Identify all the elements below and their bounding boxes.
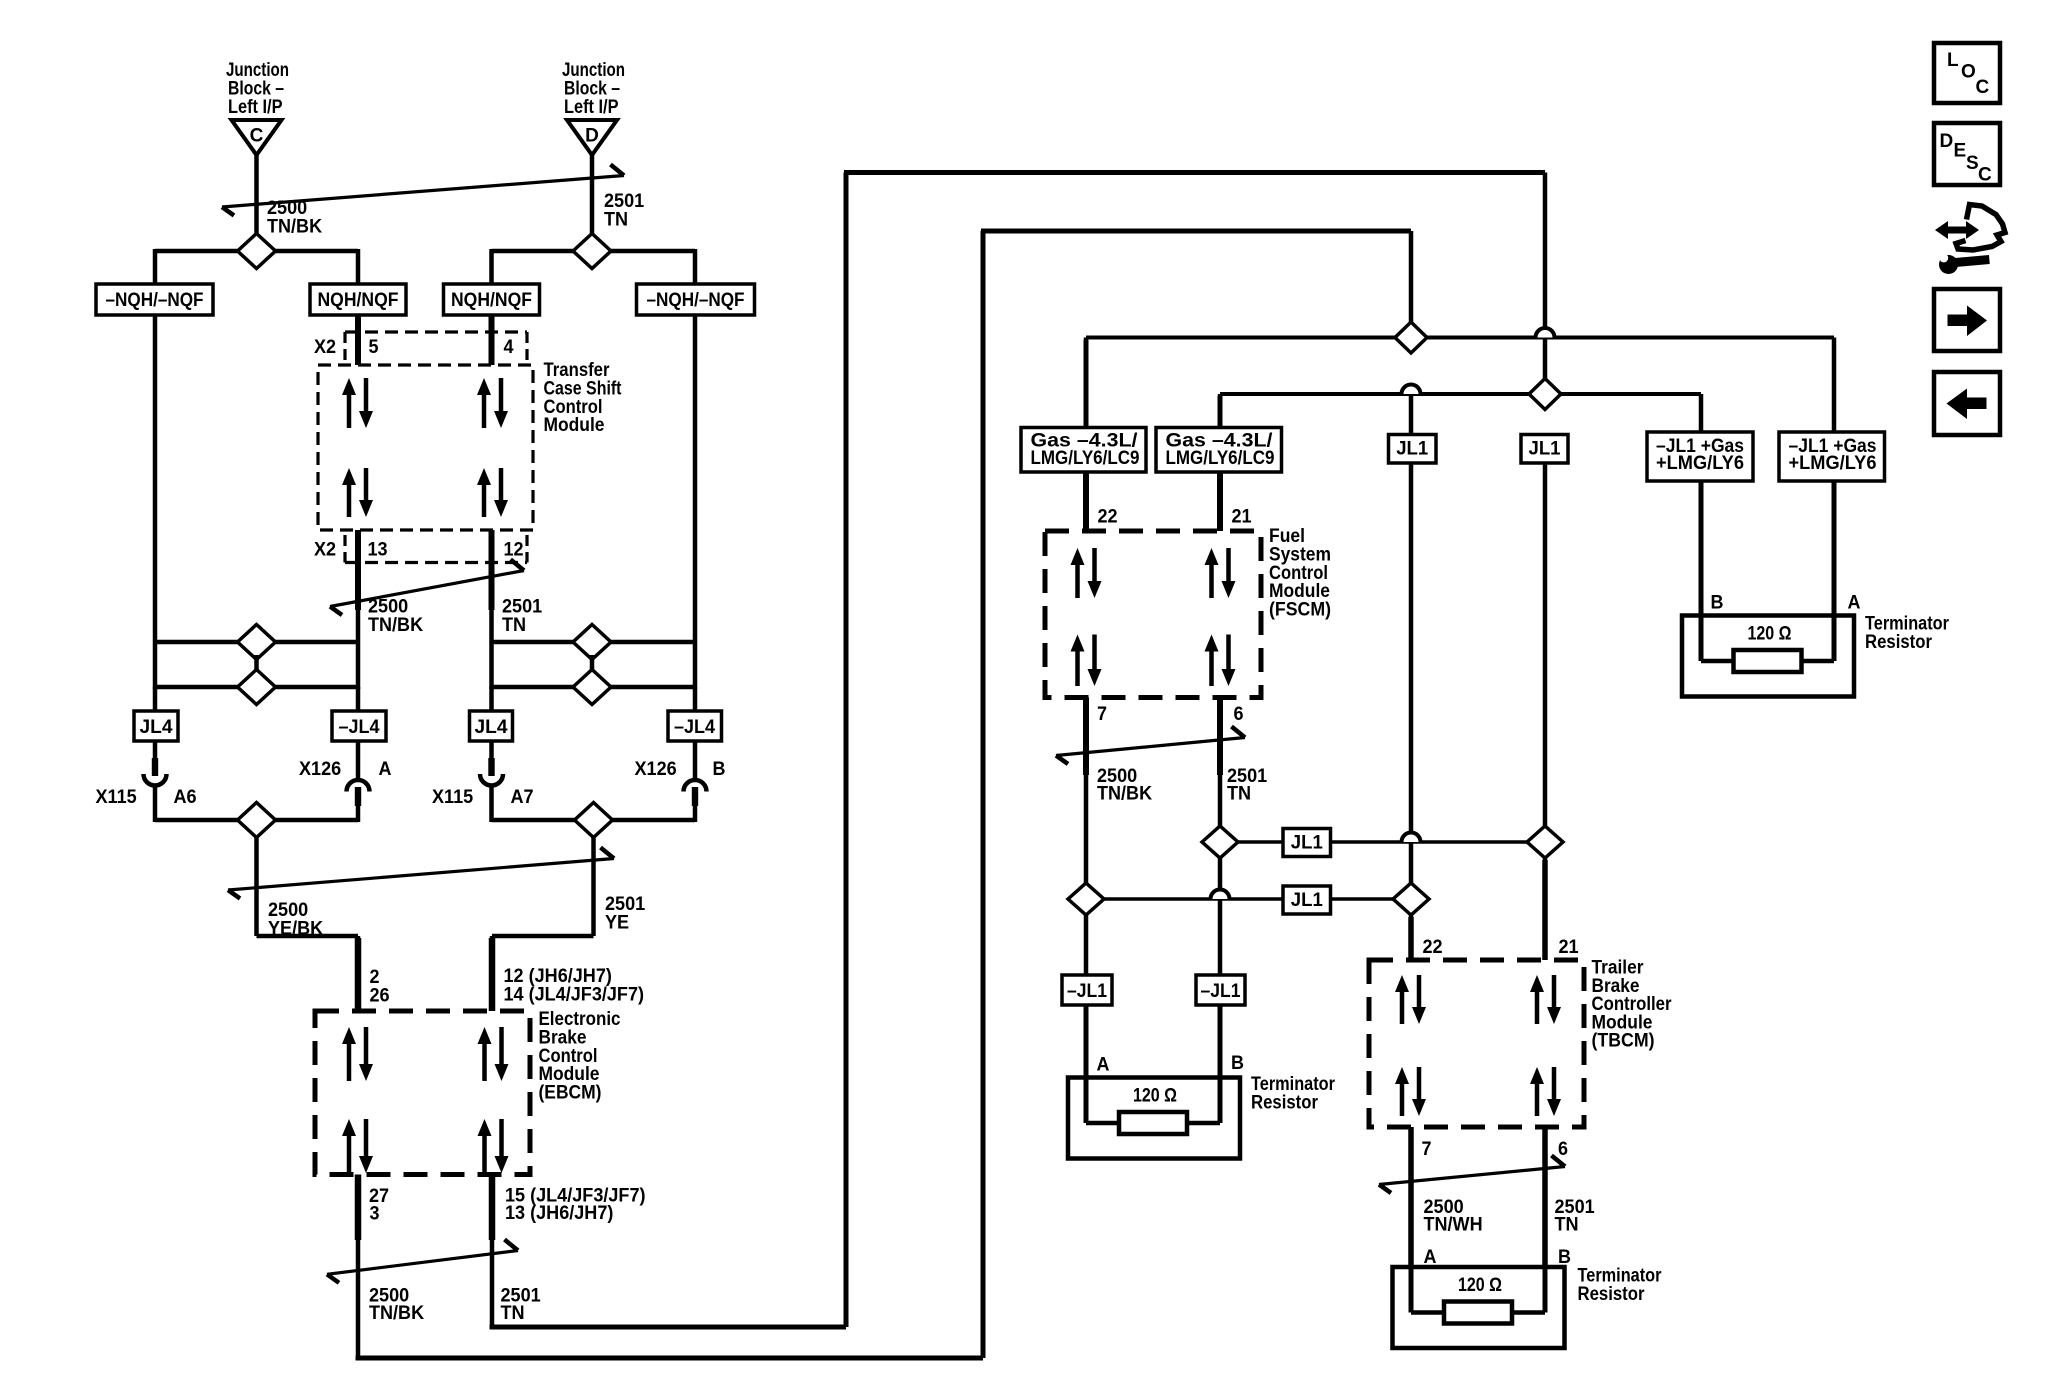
svg-text:–JL1: –JL1 bbox=[1201, 981, 1241, 1002]
svg-text:X2: X2 bbox=[314, 540, 336, 561]
JL1 splice row 2500: diamond at FSCM 7 bbox=[1068, 883, 1104, 915]
wire bus 2500 to TBCM 22 bbox=[1409, 915, 1414, 960]
TBCM serial data arrows 3 bbox=[1395, 1067, 1426, 1116]
TBCM serial data arrows 1 bbox=[1395, 975, 1426, 1024]
svg-text:12: 12 bbox=[504, 540, 524, 561]
module pin stubs overlay bbox=[355, 315, 361, 365]
svg-text:21: 21 bbox=[1559, 937, 1580, 958]
JL1 splice row 2500 wire right bbox=[1331, 897, 1412, 901]
svg-text:–JL4: –JL4 bbox=[674, 717, 715, 738]
wire EBCM pin 15 to bus 2501 bbox=[490, 1175, 495, 1328]
svg-text:L: L bbox=[1947, 50, 1959, 71]
splice S4 diamond bbox=[238, 670, 276, 705]
option box -JL1+Gas 2 bbox=[1779, 432, 1885, 481]
svg-text:JL4: JL4 bbox=[140, 717, 173, 738]
splice S4 horizontal bbox=[155, 685, 358, 690]
wire TBCM pin 7 down bbox=[1409, 1127, 1414, 1267]
svg-text:A: A bbox=[379, 759, 392, 780]
svg-text:26: 26 bbox=[370, 986, 390, 1007]
option box JL1 upper 1 bbox=[1389, 435, 1437, 464]
svg-text:C: C bbox=[1978, 165, 1992, 186]
wire -JL1+Gas box 1 riser bbox=[1699, 394, 1704, 432]
wire Gas box 2 riser bbox=[1218, 394, 1223, 428]
svg-text:6: 6 bbox=[1558, 1139, 1568, 1160]
terminator resistor middle bbox=[1068, 1078, 1240, 1159]
wire NQH left to TCSCM pin 5 bbox=[356, 315, 361, 365]
EBCM serial data arrows 2 bbox=[478, 1027, 509, 1081]
option box Gas -4.3L 2 bbox=[1156, 428, 1282, 473]
wire-destination arrow 6 bbox=[1379, 1156, 1565, 1194]
svg-text:LMG/LY6/LC9: LMG/LY6/LC9 bbox=[1166, 448, 1275, 469]
svg-text:LMG/LY6/LC9: LMG/LY6/LC9 bbox=[1031, 448, 1140, 469]
wire FSCM7 down to -JL1 bbox=[1084, 915, 1089, 975]
wire corner to -NQH/-NQF bbox=[153, 249, 158, 284]
wire corner to -NQH/-NQF 2 bbox=[693, 249, 698, 284]
FSCM serial data arrows 1 bbox=[1071, 548, 1102, 598]
svg-text:–JL1: –JL1 bbox=[1067, 981, 1107, 1002]
svg-text:TN: TN bbox=[1555, 1215, 1579, 1236]
data bus 2501 horizontal branch bbox=[1220, 392, 1701, 396]
terminator resistor bottom bbox=[1393, 1267, 1565, 1348]
svg-text:YE: YE bbox=[605, 913, 629, 934]
wire 2501 hump over row2 bbox=[1218, 858, 1223, 975]
splice diamond bus 2501 bbox=[1529, 379, 1561, 410]
back arrow icon box bbox=[1934, 372, 2000, 435]
wire JL4 right to connector bbox=[489, 741, 494, 762]
splice S8 diamond bbox=[575, 803, 613, 838]
inline connector X126 A bbox=[347, 780, 370, 806]
wire -JL1+Gas 1 to terminator B bbox=[1699, 481, 1704, 616]
wire-destination arrow 3 bbox=[228, 848, 614, 899]
option box JL1 row1 bbox=[1283, 829, 1331, 857]
wire-destination arrow 2 bbox=[330, 560, 524, 616]
terminator resistor top right bbox=[1682, 616, 1854, 697]
splice S3-S4 stub bbox=[254, 655, 259, 673]
svg-text:TN/BK: TN/BK bbox=[368, 615, 423, 636]
JL1 splice row 2500 wire left bbox=[1104, 897, 1283, 901]
svg-text:X115: X115 bbox=[96, 787, 138, 808]
wire X126 A to splice bbox=[356, 804, 361, 822]
FSCM serial data arrows 2 bbox=[1205, 548, 1236, 598]
option box JL4 right bbox=[470, 711, 513, 741]
wire -JL1+Gas 2 to terminator A bbox=[1832, 481, 1837, 616]
TCSCM serial data arrows 3 bbox=[342, 468, 373, 517]
svg-text:B: B bbox=[1231, 1053, 1244, 1074]
option box -JL4 left bbox=[332, 711, 386, 741]
wire X115 A6 to splice bbox=[153, 786, 158, 822]
wire -NQH right down bbox=[693, 315, 698, 689]
svg-text:Resistor: Resistor bbox=[1251, 1093, 1319, 1114]
svg-text:JL1: JL1 bbox=[1396, 439, 1428, 460]
wire-destination arrow 4 bbox=[327, 1240, 518, 1283]
EBCM serial data arrows 3 bbox=[342, 1119, 373, 1173]
splice S3 diamond bbox=[238, 625, 276, 660]
svg-text:(TBCM): (TBCM) bbox=[1592, 1031, 1655, 1052]
wire to JL4 right bbox=[489, 687, 494, 712]
wire corner to NQH/NQF 2 bbox=[489, 249, 494, 284]
wire -JL1 2 to terminator B bbox=[1218, 1005, 1223, 1078]
svg-text:TN: TN bbox=[501, 1303, 525, 1324]
forward arrow icon box bbox=[1934, 289, 2000, 351]
TCSCM serial data arrows 4 bbox=[477, 468, 508, 517]
svg-text:JL1: JL1 bbox=[1529, 439, 1561, 460]
option box JL4 left bbox=[134, 711, 178, 741]
splice S2 diamond bbox=[573, 234, 611, 269]
svg-text:C: C bbox=[250, 126, 264, 147]
svg-text:JL4: JL4 bbox=[475, 717, 508, 738]
svg-text:3: 3 bbox=[370, 1204, 380, 1225]
svg-text:NQH/NQF: NQH/NQF bbox=[451, 290, 532, 311]
wire EBCM pin 27 to bus 2500 bbox=[356, 1175, 361, 1359]
svg-text:–JL4: –JL4 bbox=[339, 717, 380, 738]
svg-text:X115: X115 bbox=[432, 787, 474, 808]
electronic brake control module dashed box bbox=[315, 1011, 530, 1175]
option box -NQH/-NQF left bbox=[96, 284, 213, 315]
svg-text:TN/BK: TN/BK bbox=[1097, 784, 1152, 805]
svg-text:+LMG/LY6: +LMG/LY6 bbox=[1656, 453, 1744, 474]
TCSCM connector strip X2 bottom bbox=[345, 561, 527, 564]
svg-text:X126: X126 bbox=[299, 759, 341, 780]
wire 2500 hump over row1 bbox=[1409, 463, 1414, 899]
TBCM serial data arrows 2 bbox=[1530, 975, 1561, 1024]
JL1 splice row 2501: diamond at bus bbox=[1527, 826, 1563, 858]
wire NQH right to TCSCM pin 4 bbox=[489, 315, 494, 365]
wire X115 A7 to splice bbox=[489, 786, 494, 822]
svg-text:B: B bbox=[1711, 593, 1724, 614]
wire -NQH left down bbox=[153, 315, 158, 689]
option box JL1 row2 bbox=[1283, 886, 1331, 914]
TCSCM connector strip X2 top bbox=[345, 330, 527, 333]
TCSCM serial data arrows 2 bbox=[477, 378, 508, 428]
svg-text:(EBCM): (EBCM) bbox=[539, 1082, 602, 1103]
wire-destination arrow 5 bbox=[1056, 727, 1245, 765]
wire hump 2501 over 2500 branch bbox=[1543, 327, 1548, 394]
svg-text:YE/BK: YE/BK bbox=[268, 919, 323, 940]
svg-text:TN/WH: TN/WH bbox=[1424, 1215, 1483, 1236]
inline connector X115 A6 bbox=[144, 758, 167, 786]
option box -JL1+Gas 1 bbox=[1647, 432, 1753, 481]
wire JL4 left to connector bbox=[153, 741, 158, 762]
option box JL1 upper 2 bbox=[1521, 435, 1568, 464]
svg-text:TN: TN bbox=[604, 210, 628, 231]
wire X126 B to splice bbox=[693, 804, 698, 822]
svg-text:120 Ω: 120 Ω bbox=[1748, 624, 1792, 645]
JL1 splice row 2500: diamond at bus bbox=[1393, 883, 1429, 915]
splice S6 diamond bbox=[573, 670, 611, 705]
inline connector X126 B bbox=[684, 780, 707, 806]
wire FSCM pin 7 down bbox=[1084, 698, 1089, 900]
svg-text:120 Ω: 120 Ω bbox=[1133, 1086, 1177, 1107]
FSCM serial data arrows 4 bbox=[1205, 635, 1236, 687]
svg-text:Resistor: Resistor bbox=[1865, 632, 1933, 653]
wire-destination arrow 1 bbox=[222, 165, 624, 216]
wire splice S8 to EBCM pin 12 bbox=[591, 837, 596, 936]
wire Gas box 1 riser bbox=[1084, 338, 1089, 429]
splice S1 horizontal bbox=[155, 249, 358, 254]
svg-text:Left I/P: Left I/P bbox=[564, 97, 619, 118]
svg-text:13: 13 bbox=[368, 540, 388, 561]
wire bus 2500 corner down bbox=[1409, 231, 1414, 338]
EBCM serial data arrows 4 bbox=[478, 1119, 509, 1173]
wire -JL4 left to connector bbox=[356, 741, 361, 779]
FSCM serial data arrows 3 bbox=[1071, 635, 1102, 687]
DESC icon box bbox=[1934, 123, 2000, 185]
svg-text:JL1: JL1 bbox=[1291, 890, 1323, 911]
svg-text:E: E bbox=[1954, 141, 1967, 162]
splice S3 horizontal bbox=[155, 640, 358, 645]
svg-text:O: O bbox=[1961, 62, 1976, 83]
svg-text:–NQH/–NQF: –NQH/–NQF bbox=[106, 290, 204, 311]
svg-text:21: 21 bbox=[1232, 507, 1253, 528]
inline connector X115 A7 bbox=[480, 758, 503, 786]
wire FSCM pin 6 down bbox=[1218, 698, 1223, 843]
wire Gas1 to FSCM pin 22 bbox=[1084, 472, 1089, 531]
wire -JL4 right to connector bbox=[693, 741, 698, 779]
TCSCM serial data arrows 1 bbox=[342, 378, 373, 428]
JL1 splice row 2501 wire left bbox=[1238, 840, 1283, 844]
svg-text:TN/BK: TN/BK bbox=[369, 1303, 424, 1324]
splice S7 horizontal bbox=[155, 818, 358, 823]
option box NQH/NQF right bbox=[444, 284, 540, 315]
splice S2 horizontal bbox=[492, 249, 696, 254]
svg-text:(FSCM): (FSCM) bbox=[1269, 599, 1331, 620]
option box Gas -4.3L 1 bbox=[1021, 428, 1146, 473]
svg-text:14 (JL4/JF3/JF7): 14 (JL4/JF3/JF7) bbox=[504, 985, 645, 1006]
junction block D triangle connector bbox=[567, 120, 617, 155]
svg-text:A6: A6 bbox=[174, 787, 197, 808]
wire bus 2501 corner down bbox=[1543, 173, 1548, 328]
wire corner to NQH/NQF bbox=[356, 249, 361, 284]
svg-text:Module: Module bbox=[544, 415, 605, 436]
splice diamond bus 2500 bbox=[1395, 322, 1427, 353]
svg-text:TN/BK: TN/BK bbox=[267, 217, 322, 238]
JL1 splice row 2501 wire right bbox=[1331, 840, 1546, 844]
svg-text:A: A bbox=[1097, 1055, 1110, 1076]
option box -JL1 2 bbox=[1196, 975, 1245, 1005]
option box NQH/NQF left bbox=[310, 284, 406, 315]
LOC icon box bbox=[1934, 43, 2000, 103]
svg-text:D: D bbox=[585, 126, 599, 147]
wire Gas2 to FSCM pin 21 bbox=[1218, 472, 1223, 531]
transfer case shift control module dashed box bbox=[318, 365, 533, 530]
splice S5 horizontal bbox=[492, 640, 696, 645]
splice S5 diamond bbox=[573, 625, 611, 660]
svg-text:Left I/P: Left I/P bbox=[228, 97, 283, 118]
wire hump 2500 over 2501 branch bbox=[1409, 394, 1414, 435]
harness repair icon bbox=[1935, 205, 2005, 275]
wire TCSCM pin 13 down bbox=[356, 530, 361, 689]
wire TCSCM pin 12 down bbox=[489, 530, 494, 689]
splice S6 horizontal bbox=[492, 685, 696, 690]
data bus 2500 horizontal branch bbox=[1086, 336, 1834, 340]
svg-text:Resistor: Resistor bbox=[1578, 1284, 1646, 1305]
svg-text:–NQH/–NQF: –NQH/–NQF bbox=[647, 290, 745, 311]
svg-text:C: C bbox=[1976, 77, 1990, 98]
junction block C triangle connector bbox=[232, 120, 282, 155]
svg-text:13 (JH6/JH7): 13 (JH6/JH7) bbox=[505, 1203, 613, 1224]
svg-text:A7: A7 bbox=[511, 787, 534, 808]
svg-text:S: S bbox=[1966, 153, 1979, 174]
wire to -JL4 right bbox=[693, 687, 698, 712]
splice S1 diamond bbox=[238, 234, 276, 269]
svg-text:22: 22 bbox=[1423, 937, 1443, 958]
wire splice S7 to EBCM pin 2 bbox=[254, 837, 259, 936]
splice S5-S6 stub bbox=[590, 655, 595, 673]
EBCM serial data arrows 1 bbox=[342, 1027, 373, 1081]
svg-text:B: B bbox=[713, 759, 726, 780]
svg-text:7: 7 bbox=[1422, 1139, 1432, 1160]
svg-text:22: 22 bbox=[1098, 507, 1118, 528]
svg-text:X2: X2 bbox=[314, 337, 336, 358]
wire to JL4 left bbox=[153, 687, 158, 712]
svg-text:A: A bbox=[1848, 593, 1861, 614]
TBCM serial data arrows 4 bbox=[1530, 1067, 1561, 1116]
trailer brake controller module dashed box bbox=[1369, 960, 1584, 1127]
option box -JL4 right bbox=[668, 711, 722, 741]
svg-text:NQH/NQF: NQH/NQF bbox=[318, 290, 399, 311]
svg-text:4: 4 bbox=[504, 337, 514, 358]
wire from D triangle to splice bbox=[590, 155, 595, 233]
wire to -JL4 left bbox=[356, 687, 361, 712]
wire -JL1+Gas box 2 riser bbox=[1832, 338, 1837, 433]
svg-text:5: 5 bbox=[369, 337, 379, 358]
option box -NQH/-NQF right bbox=[637, 284, 755, 315]
svg-text:120 Ω: 120 Ω bbox=[1458, 1275, 1502, 1296]
svg-text:+LMG/LY6: +LMG/LY6 bbox=[1789, 453, 1877, 474]
option box -JL1 1 bbox=[1062, 975, 1112, 1005]
wire TBCM pin 6 down bbox=[1543, 1127, 1548, 1267]
wire -JL1 1 to terminator A bbox=[1084, 1005, 1089, 1078]
svg-text:TN: TN bbox=[1227, 784, 1251, 805]
JL1 splice row 2501: diamond at FSCM 6 bbox=[1202, 826, 1238, 858]
svg-text:6: 6 bbox=[1234, 704, 1244, 725]
wire from C triangle to splice bbox=[254, 155, 259, 233]
svg-text:X126: X126 bbox=[635, 759, 677, 780]
fuel system control module dashed box bbox=[1045, 531, 1261, 698]
splice S7 diamond bbox=[238, 803, 276, 838]
svg-text:TN: TN bbox=[502, 615, 526, 636]
svg-text:D: D bbox=[1940, 131, 1954, 152]
splice S8 horizontal bbox=[492, 818, 696, 823]
wire bus 2501 JL1 to TBCM 21 bbox=[1543, 463, 1548, 826]
svg-text:7: 7 bbox=[1097, 704, 1107, 725]
svg-text:JL1: JL1 bbox=[1291, 833, 1323, 854]
